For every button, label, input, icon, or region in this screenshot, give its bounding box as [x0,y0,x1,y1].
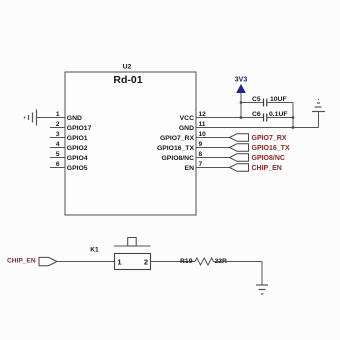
port CHIP_EN (flag + label, right side) [230,164,282,173]
svg-text:1: 1 [56,111,60,118]
pin 3 GPIO1 (stub + number + name) [50,131,88,142]
svg-text:7: 7 [199,161,203,168]
power 3V3 (label + triangle) [235,77,248,93]
U2 part name Rd-01 [113,74,142,86]
svg-text:GPIO16_TX: GPIO16_TX [252,145,290,152]
switch K1 (body, pins 1/2, button, refdes) [90,238,150,270]
wire pin1 GND to left ground [37,117,66,119]
capacitor C6 0.1UF [241,111,293,122]
pin 1 GND (number + name) [56,111,82,122]
junction C6 right / vertical [292,116,295,119]
ground (top right, inverted pointing up) [312,100,325,128]
svg-text:CHIP_EN: CHIP_EN [252,165,282,172]
svg-text:6: 6 [56,161,60,168]
U2 reference designator label [123,64,132,71]
IC U2 body (Rd-01 module) [65,72,196,215]
svg-text:0.1UF: 0.1UF [269,111,288,118]
wire capacitor right-side vertical bus [292,103,294,128]
pin 5 GPIO4 (stub + number + name) [50,151,88,162]
svg-text:4: 4 [56,141,60,148]
svg-text:GPIO8/NC: GPIO8/NC [162,155,195,162]
wire pin 11 GND to top-right ground [196,127,319,129]
svg-text:GPIO1: GPIO1 [67,135,88,142]
svg-text:8: 8 [199,151,203,158]
pin 2 GPIO17 (stub + number + name) [50,121,92,132]
svg-text:GND: GND [179,125,194,132]
pin 4 GPIO2 (stub + number + name) [50,141,88,152]
junction 3V3/VCC/C6 [240,116,243,119]
wire 3V3 stem down to VCC rail [240,93,242,118]
pin 12 VCC (stub + number + name) [180,111,241,122]
svg-text:2: 2 [144,258,148,267]
svg-text:GPIO7_RX: GPIO7_RX [160,135,194,142]
pin 11 GND (stub + number + name) [179,121,206,132]
svg-text:1: 1 [117,258,121,267]
pin 8 GPIO8/NC (stub + number + name) [162,151,230,162]
pin 7 EN (stub + number + name) [185,161,230,172]
svg-text:K1: K1 [90,247,99,254]
port GPIO16_TX (flag + label) [230,144,290,153]
svg-text:EN: EN [185,165,195,172]
wire CHIP_EN port to switch K1 [57,261,115,263]
svg-text:U2: U2 [123,64,132,71]
svg-text:C6: C6 [252,111,261,118]
svg-text:C5: C5 [252,96,261,103]
pin 6 GPIO5 (stub + number + name) [50,161,88,172]
port GPIO7_RX (flag + label) [230,134,287,143]
svg-text:3V3: 3V3 [235,77,248,84]
svg-text:12: 12 [199,111,207,118]
svg-text:GPIO2: GPIO2 [67,145,88,152]
port GPIO8/NC (flag + label) [230,154,285,163]
junction vertical / GND wire [292,126,295,129]
svg-text:GPIO17: GPIO17 [67,125,92,132]
resistor R19 22R (zigzag + labels) [180,258,227,265]
svg-text:10UF: 10UF [270,96,287,103]
svg-text:GPIO8/NC: GPIO8/NC [252,155,285,162]
wire switch K1 to resistor R19 [151,261,196,263]
svg-text:3: 3 [56,131,60,138]
svg-text:11: 11 [199,121,206,128]
svg-text:VCC: VCC [180,115,194,122]
svg-text:10: 10 [199,131,207,138]
svg-text:5: 5 [56,151,60,158]
ground (bottom right) [256,285,268,294]
wire R19 to bottom-right ground [214,262,263,286]
svg-text:9: 9 [199,141,203,148]
svg-text:CHIP_EN: CHIP_EN [7,257,36,264]
svg-text:R19: R19 [180,258,193,265]
svg-text:GPIO7_RX: GPIO7_RX [252,135,287,142]
port CHIP_EN (bottom left, label + flag pointing right) [7,257,57,265]
svg-text:GND: GND [67,115,82,122]
pin 9 GPIO16_TX (stub + number + name) [157,141,230,152]
capacitor C5 10UF [241,96,293,107]
svg-text:GPIO16_TX: GPIO16_TX [157,145,194,152]
junction 3V3/C5 branch [240,101,243,104]
svg-text:2: 2 [56,121,60,128]
pin 10 GPIO7_RX (stub + number + name) [160,131,230,142]
svg-text:Rd-01: Rd-01 [113,74,142,86]
ground (left of pin 1, sideways pointing left) [25,110,37,126]
svg-text:GPIO4: GPIO4 [67,155,88,162]
svg-text:GPIO5: GPIO5 [67,165,88,172]
